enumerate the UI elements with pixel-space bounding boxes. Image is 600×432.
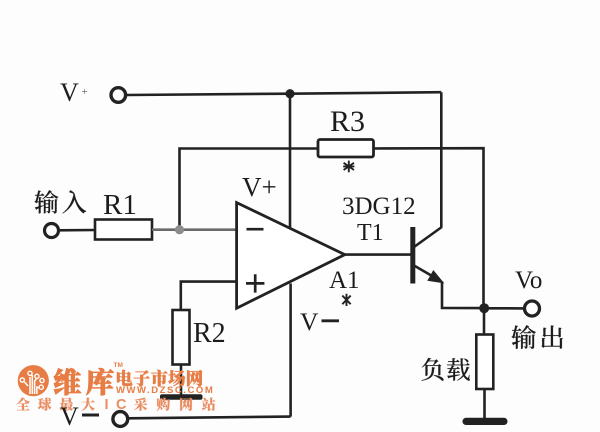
watermark row part2 采购网站 <box>134 397 147 410</box>
op-amp inverting (-) marker <box>247 228 264 231</box>
label V+ supply (top-left) <box>60 80 88 106</box>
label R1 <box>103 191 137 220</box>
watermark text 电子市场网 <box>117 370 132 386</box>
wire: feedback from inverting node up and right to R3 <box>180 149 319 230</box>
wire: output node to Vo terminal <box>484 307 525 310</box>
wire: R1 to op-amp inverting input <box>152 228 238 231</box>
wire: emitter down and right to output node <box>442 282 484 309</box>
wire: R2 down to ground <box>180 365 183 396</box>
power terminal V- (bottom open circle) <box>113 412 128 427</box>
label 输入 (input) <box>34 190 58 213</box>
label R3 <box>330 107 365 137</box>
wire: V+ rail from terminal to collector drop <box>126 92 441 95</box>
load resistor body (负载) <box>476 335 493 390</box>
label T1 <box>357 221 384 245</box>
dash of V- label near op-amp <box>322 319 340 322</box>
wire: op-amp V- supply pin down to negative rail <box>289 284 292 417</box>
watermark letters I C <box>105 398 135 413</box>
resistor R2 body <box>173 310 190 365</box>
wire: load down to ground <box>483 389 486 419</box>
input terminal (open circle, left) <box>45 224 59 238</box>
node: output junction dot <box>479 303 489 313</box>
watermark logo: orange circle with white circuit traces and pads <box>18 365 49 396</box>
wire: input terminal to R1 <box>59 229 96 232</box>
label V+ (op-amp positive supply pin) <box>242 174 277 201</box>
transistor T1 emitter stroke with arrow <box>414 266 433 277</box>
label 3DG12 (transistor type) <box>342 194 416 219</box>
wire: V+ supply drop to op-amp top edge <box>289 94 292 228</box>
power terminal V+ (top-left open circle) <box>111 88 126 103</box>
resistor R1 body <box>95 220 152 240</box>
asterisk mark under R3 <box>343 161 354 173</box>
dash of V- label bottom-left <box>82 414 99 417</box>
asterisk mark under A1 <box>342 294 350 306</box>
op-amp non-inverting (+) marker <box>246 274 264 292</box>
label 负载 (load) <box>422 358 444 381</box>
ground symbol under load (thick rounded bar) <box>463 418 508 425</box>
label Vo <box>515 268 542 293</box>
label 输出 (output) <box>511 325 535 349</box>
wire: V+ rail down to transistor collector <box>440 92 443 227</box>
watermark url WWW.DZSC.COM <box>116 386 214 396</box>
wire: output node down to load <box>483 308 486 335</box>
watermark text 维库 <box>54 368 81 395</box>
ground symbol under R2 (thick bar) <box>160 394 203 399</box>
wire: V- rail <box>128 417 291 419</box>
transistor T1 collector stroke <box>414 227 442 247</box>
label A1 (op-amp designator) <box>329 268 360 293</box>
watermark row 全球最大...采购网站 part1 <box>16 398 30 411</box>
wire: R3 right to output column <box>374 148 484 303</box>
node: junction dot on V+ rail feeding op-amp <box>285 89 294 98</box>
wire: op-amp output to transistor base <box>345 253 411 256</box>
label V- (op-amp negative supply pin) <box>300 309 318 335</box>
watermark TM mark <box>114 363 123 370</box>
op-amp A1 triangle <box>237 203 345 309</box>
label V- supply (bottom-left) <box>60 404 79 430</box>
resistor R3 (feedback) body <box>318 140 374 158</box>
output terminal Vo (open circle) <box>525 301 540 316</box>
node: inverting input junction dot <box>175 225 184 234</box>
label R2 <box>193 320 226 348</box>
transistor T1 base bar <box>410 227 415 284</box>
wire: non-inverting input to R2 <box>181 282 238 310</box>
